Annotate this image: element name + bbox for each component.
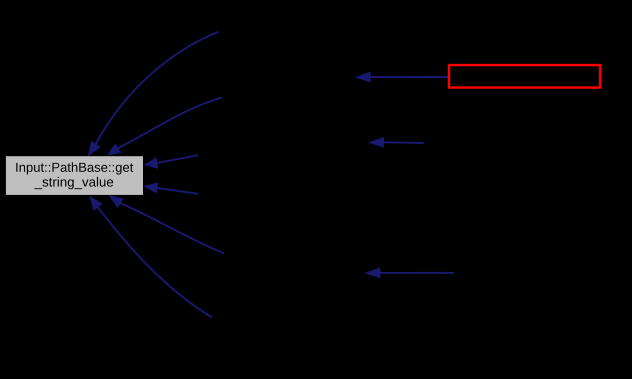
edge level-2 caller -> caller-5	[365, 268, 454, 278]
label line 1: "Input::PathBase::get"	[16, 162, 133, 174]
label line 2: "_string_value"	[34, 177, 113, 189]
edge caller-6 (bottom) -> get_string_value	[90, 196, 213, 317]
edge caller-5 -> get_string_value	[109, 195, 224, 253]
edge caller-4 -> get_string_value	[144, 183, 198, 194]
edge red node -> caller-1	[356, 72, 449, 82]
edge level-2 caller -> caller-2	[369, 137, 424, 147]
edge caller-2 -> get_string_value	[108, 98, 223, 156]
edge caller-3 -> get_string_value	[144, 155, 198, 168]
node: Input::PathBase::get_string_value (central callee, grey filled)	[6, 156, 143, 195]
edge caller-1 (top) -> get_string_value	[88, 32, 218, 156]
node: current function (red outlined box, label hidden on black)	[449, 65, 600, 88]
